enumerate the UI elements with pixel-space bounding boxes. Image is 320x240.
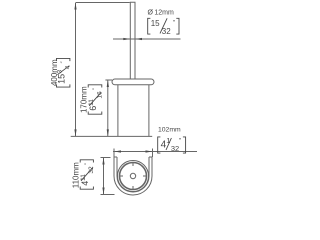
102mm dimension line (bottom view) — [113, 149, 197, 158]
svg-text:102mm: 102mm — [158, 126, 181, 133]
arrow dia12 right — [135, 38, 142, 40]
svg-text:32: 32 — [171, 144, 179, 153]
arrow 102mm right — [146, 150, 153, 152]
center hub circle (bottom view) — [130, 173, 135, 178]
arrow 400mm bottom — [74, 129, 76, 136]
110mm dimension line (bottom view) — [101, 158, 115, 195]
svg-text:32: 32 — [88, 166, 95, 174]
svg-text:15: 15 — [56, 74, 66, 84]
brush rod (side view) — [130, 2, 135, 79]
label [15 3/4"] (rotated) — [56, 58, 71, 87]
cup body (side view) — [118, 85, 149, 137]
svg-text:Ø 12mm: Ø 12mm — [148, 10, 174, 17]
svg-text:″: ″ — [61, 61, 67, 63]
arrow 170mm bottom — [107, 129, 109, 136]
label [6 11/16"] (rotated) — [88, 85, 103, 114]
label [4 1/32"] — [158, 136, 186, 153]
label [4 11/32"] (rotated) — [80, 160, 95, 189]
svg-text:″: ″ — [84, 163, 90, 165]
cup bottom / baseline — [71, 135, 153, 137]
svg-text:15: 15 — [151, 19, 160, 28]
svg-text:32: 32 — [162, 27, 171, 36]
mounting bracket U-shape (bottom view) — [114, 157, 152, 195]
rim tick marks (bottom view) — [120, 163, 147, 190]
arrow 110mm top — [102, 158, 104, 165]
svg-text:1: 1 — [166, 136, 170, 145]
arrow 110mm bottom — [102, 188, 104, 195]
svg-text:″: ″ — [93, 88, 99, 90]
400mm dimension line — [76, 3, 130, 137]
svg-text:4: 4 — [65, 65, 72, 69]
arrow 102mm left — [114, 150, 121, 152]
diameter 12mm dimension line — [113, 38, 181, 40]
170mm dimension line — [105, 80, 112, 136]
holder flange (side view) — [112, 79, 154, 85]
arrow 400mm top — [74, 3, 76, 10]
svg-text:16: 16 — [96, 91, 103, 99]
cup outer circle (bottom view) — [118, 161, 149, 192]
arrow 170mm top — [107, 80, 109, 87]
label [15/32"] — [148, 18, 179, 36]
cup rim bold circle (bottom view) — [120, 163, 147, 190]
arrow dia12 left — [123, 38, 130, 40]
